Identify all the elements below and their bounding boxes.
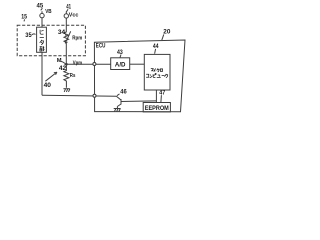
leader 20 — [162, 34, 164, 40]
svg-text:Vpm: Vpm — [73, 61, 82, 67]
microcomputer text line2: ko-n-pi-yu-dash-ta — [146, 73, 168, 77]
ground under transistor 46 — [114, 109, 121, 112]
glyph ko — [146, 74, 149, 77]
svg-text:40: 40 — [44, 82, 52, 89]
leader tick under label 15 — [23, 19, 26, 21]
svg-text:EEPROM: EEPROM — [145, 105, 169, 112]
wire Rpm to node M — [65, 42, 67, 64]
glyph ro — [160, 69, 162, 71]
wire A/D to micro — [130, 63, 145, 65]
ground under Rs — [63, 89, 70, 92]
glyph ta — [40, 40, 44, 45]
tick 42 to node — [65, 64, 66, 65]
svg-text:A/D: A/D — [115, 61, 126, 68]
svg-text:46: 46 — [120, 89, 127, 96]
svg-text:Rs: Rs — [70, 73, 76, 79]
leader 43 — [120, 55, 121, 58]
resistor Rpm (34) zigzag — [64, 32, 69, 43]
wire heater box bottom down — [41, 52, 43, 95]
svg-text:15: 15 — [21, 14, 27, 21]
microcomputer box 44 — [144, 54, 170, 90]
svg-text:Rpm: Rpm — [72, 36, 82, 42]
svg-text:ECU: ECU — [96, 43, 106, 50]
svg-text:Vcc: Vcc — [69, 13, 79, 19]
svg-text:43: 43 — [117, 49, 123, 56]
leader 40 arrow — [45, 72, 56, 81]
glyph ta — [164, 74, 167, 78]
svg-text:VB: VB — [45, 9, 51, 15]
glyph ku — [157, 68, 160, 72]
glyph small yu — [157, 75, 161, 78]
glyph hi — [40, 30, 44, 35]
glyph pi — [153, 73, 156, 77]
leader 44 — [155, 49, 156, 54]
leader 34 — [65, 34, 66, 36]
wire micro to EEPROM — [155, 90, 157, 103]
glyph long dash — [162, 75, 165, 77]
svg-text:34: 34 — [58, 29, 66, 36]
terminal 41 Vcc — [64, 9, 68, 32]
reference number labels — [21, 3, 171, 97]
svg-text:41: 41 — [66, 4, 71, 11]
svg-text:M: M — [57, 58, 62, 64]
svg-text:42: 42 — [59, 65, 67, 72]
connector circle on Vpm wire — [93, 63, 96, 66]
leader 47 — [160, 95, 163, 102]
glyph long dash — [40, 37, 44, 39]
heater box 35 — [37, 27, 47, 52]
glyph ma — [151, 69, 154, 72]
microcomputer text line1: ma-i-ku-ro — [151, 68, 163, 72]
resistor Rs zigzag — [64, 64, 69, 88]
transistor 46 — [116, 96, 156, 108]
terminal 45 VB — [40, 8, 44, 27]
A/D box 43 — [111, 58, 130, 70]
heater text (vertical: hi-ta-bu) — [40, 30, 45, 52]
signal name labels — [45, 9, 169, 112]
kana drawn as paths (Liberation has no kana) — [40, 30, 168, 78]
node M dot — [65, 63, 68, 66]
svg-text:20: 20 — [163, 28, 170, 35]
ECU box 20 (slightly skewed scan) — [94, 40, 185, 112]
leader 35 — [32, 33, 36, 36]
glyph bu — [40, 46, 45, 51]
connector circle on rail — [93, 94, 96, 97]
svg-text:47: 47 — [159, 90, 165, 97]
glyph n — [150, 75, 152, 78]
wire node to A/D — [66, 63, 110, 65]
glyph i — [154, 68, 156, 71]
EEPROM box 47 — [143, 103, 170, 112]
svg-text:35: 35 — [25, 32, 32, 39]
svg-text:45: 45 — [37, 3, 44, 10]
bottom rail to ECU — [42, 94, 116, 97]
sensor unit dashed box 15 — [17, 25, 85, 55]
svg-text:44: 44 — [153, 43, 159, 50]
Rpm variable arrow — [65, 31, 70, 43]
M leader tick — [60, 61, 65, 63]
leader 46 — [117, 94, 120, 96]
